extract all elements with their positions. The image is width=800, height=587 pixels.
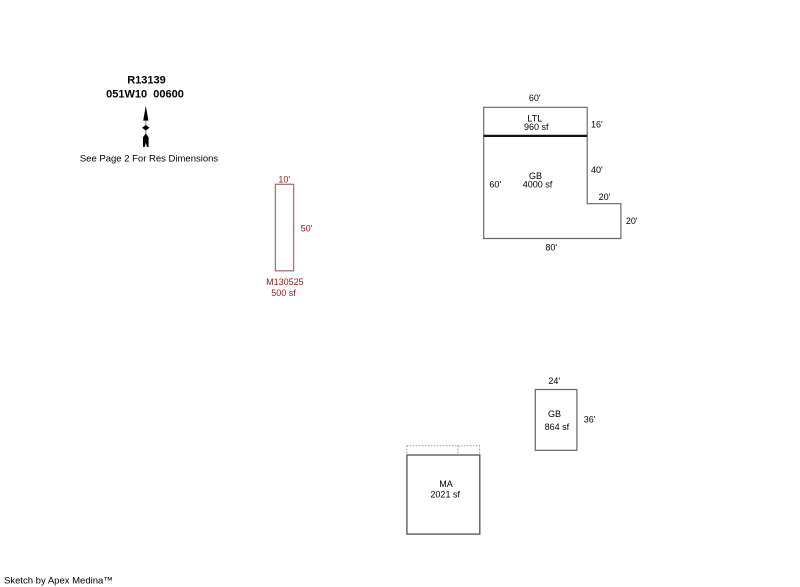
- svg-text:20': 20': [599, 192, 611, 202]
- outbuilding M130525 outline (10 x 50): [275, 184, 293, 270]
- LTL divider wall: [484, 135, 588, 137]
- svg-text:960 sf: 960 sf: [524, 122, 549, 132]
- building GB/LTL outline: [484, 107, 621, 238]
- svg-text:R13139: R13139: [127, 75, 166, 87]
- svg-text:500 sf: 500 sf: [271, 288, 296, 298]
- svg-text:80': 80': [545, 242, 557, 252]
- building GB 864 outline: [535, 390, 577, 451]
- svg-text:24': 24': [548, 376, 560, 386]
- svg-text:4000 sf: 4000 sf: [523, 179, 553, 189]
- svg-text:36': 36': [584, 415, 596, 425]
- svg-text:M130525: M130525: [266, 277, 304, 287]
- svg-text:50': 50': [301, 224, 313, 234]
- svg-text:60': 60': [489, 179, 501, 189]
- svg-text:See Page 2 For Res Dimensions: See Page 2 For Res Dimensions: [80, 154, 219, 165]
- porch strip (dashed) above MA: [407, 446, 480, 455]
- svg-text:051W10 00600: 051W10 00600: [106, 89, 184, 101]
- svg-text:10': 10': [278, 175, 290, 185]
- svg-text:Sketch by Apex Medina™: Sketch by Apex Medina™: [4, 576, 113, 587]
- svg-text:2021 sf: 2021 sf: [430, 489, 460, 499]
- svg-text:40': 40': [591, 165, 603, 175]
- building MA outline: [407, 455, 480, 534]
- svg-text:60': 60': [529, 93, 541, 103]
- svg-text:GB: GB: [548, 409, 561, 419]
- svg-text:MA: MA: [439, 479, 453, 489]
- svg-text:864 sf: 864 sf: [545, 422, 570, 432]
- svg-text:16': 16': [591, 120, 603, 130]
- north arrow: [142, 106, 149, 147]
- svg-text:20': 20': [626, 216, 638, 226]
